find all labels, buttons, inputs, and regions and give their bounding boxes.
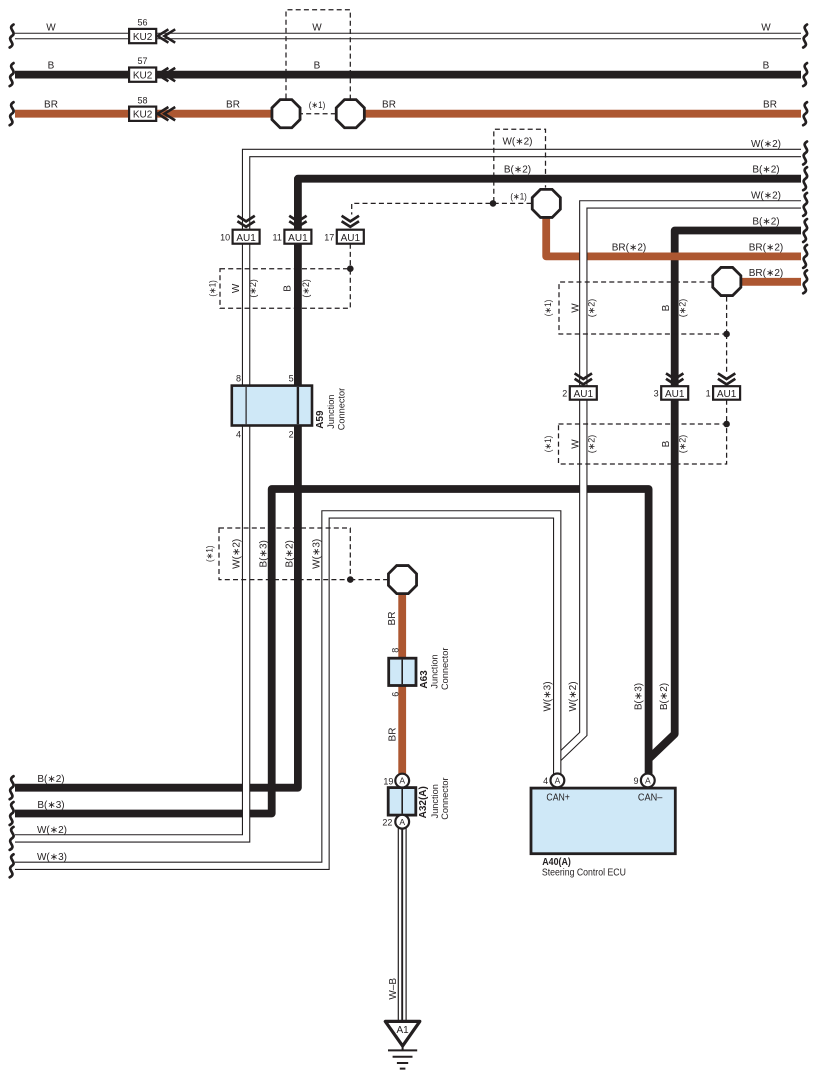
svg-text:B(∗3): B(∗3) xyxy=(37,800,64,811)
ground hatching xyxy=(388,1046,417,1069)
svg-text:A40(A): A40(A) xyxy=(542,857,571,868)
svg-text:(∗1): (∗1) xyxy=(543,436,553,453)
svg-text:Junction: Junction xyxy=(326,395,336,429)
svg-text:B(∗2): B(∗2) xyxy=(752,216,779,227)
svg-text:A: A xyxy=(399,776,405,786)
shield dashed link octagon E4 down to box S5 xyxy=(726,297,728,334)
shield terminal octagon E1 xyxy=(272,100,300,128)
wire BR(*2) from octagon E4 to right edge xyxy=(736,278,801,286)
svg-text:2: 2 xyxy=(562,388,567,398)
svg-text:BR: BR xyxy=(763,100,777,111)
connector AU1 pin 17 xyxy=(337,230,364,244)
wire W(*2) right branch to ECU CAN+ pin 4 xyxy=(557,204,801,759)
svg-text:BR: BR xyxy=(387,612,398,626)
node shield junction at S5 bottom right xyxy=(723,331,730,338)
junction connector A63 xyxy=(389,658,416,685)
svg-text:W: W xyxy=(46,22,56,33)
svg-text:W(∗2): W(∗2) xyxy=(751,190,781,201)
svg-text:22: 22 xyxy=(382,817,392,827)
svg-text:17: 17 xyxy=(324,232,334,242)
svg-text:(∗2): (∗2) xyxy=(678,435,688,454)
shield outline S2 (box labelled W(*2)) xyxy=(494,129,546,202)
svg-text:W: W xyxy=(312,22,322,33)
svg-text:(∗2): (∗2) xyxy=(301,279,311,298)
svg-text:BR: BR xyxy=(44,100,58,111)
svg-text:56: 56 xyxy=(137,18,147,28)
svg-text:BR: BR xyxy=(382,100,396,111)
svg-text:B(∗2): B(∗2) xyxy=(285,540,296,567)
pin 22 terminal circle (A32) xyxy=(395,815,409,829)
svg-text:W(∗3): W(∗3) xyxy=(312,539,323,569)
svg-text:W(∗2): W(∗2) xyxy=(568,681,579,711)
svg-text:(∗1): (∗1) xyxy=(309,100,326,110)
node shield junction at S3 top right xyxy=(347,265,354,272)
shield dashed net from octagon E3 to connector AU1 pin 17 xyxy=(352,203,532,214)
connector AU1 pin 11 arrow xyxy=(289,216,306,227)
shield terminal octagon E2 xyxy=(336,100,364,128)
svg-text:1: 1 xyxy=(706,388,711,398)
wire B(*2) right branch to ECU CAN- pin 9 xyxy=(649,231,801,760)
shield terminal octagon E4 xyxy=(713,267,741,295)
svg-text:B(∗2): B(∗2) xyxy=(37,774,64,785)
svg-text:(∗2): (∗2) xyxy=(587,435,597,454)
svg-text:11: 11 xyxy=(273,232,282,242)
svg-text:6: 6 xyxy=(391,692,401,697)
connector AU1 pin 3 xyxy=(661,386,688,400)
svg-text:A32(A): A32(A) xyxy=(418,786,429,818)
wire W (main bus, top) xyxy=(15,33,801,40)
shield dashed link box S5 to connector AU1 pin 1 xyxy=(726,334,728,373)
connector AU1 pin 11 xyxy=(284,230,311,244)
connector AU1 pin 2 xyxy=(570,386,597,400)
svg-text:W(∗3): W(∗3) xyxy=(543,681,554,711)
svg-text:BR(∗2): BR(∗2) xyxy=(749,243,784,254)
svg-text:8: 8 xyxy=(236,373,241,383)
svg-text:AU1: AU1 xyxy=(574,389,594,400)
wire BR (main, left of octagon E1) xyxy=(15,110,282,118)
svg-text:W: W xyxy=(571,439,582,449)
svg-text:AU1: AU1 xyxy=(236,233,256,244)
svg-text:(∗1): (∗1) xyxy=(207,280,217,297)
svg-text:10: 10 xyxy=(220,232,230,242)
svg-text:B(∗3): B(∗3) xyxy=(259,540,270,567)
svg-text:B: B xyxy=(314,61,321,72)
connector AU1 pin 1 xyxy=(713,386,740,400)
svg-text:KU2: KU2 xyxy=(133,110,153,121)
svg-text:A1: A1 xyxy=(396,1025,409,1036)
svg-text:W(∗2): W(∗2) xyxy=(502,137,532,148)
svg-text:(∗2): (∗2) xyxy=(587,299,597,318)
svg-text:Connector: Connector xyxy=(440,777,450,819)
wire B(*2) from right edge through A59 to left edge xyxy=(15,179,801,788)
svg-text:B: B xyxy=(661,304,672,311)
shield outline S5 (right upper box W(*2)/B(*2)) xyxy=(559,282,727,334)
shield outline S6 (right lower box W(*2)/B(*2)) xyxy=(559,424,727,464)
wire break symbols, left edge xyxy=(10,25,14,48)
pin 9 terminal circle (A40) xyxy=(641,774,655,788)
svg-text:A: A xyxy=(555,776,561,786)
shield dashed link AU1 pin1 to box S6 xyxy=(726,400,728,424)
svg-text:57: 57 xyxy=(137,56,147,66)
junction connector A32(A) xyxy=(388,788,416,816)
svg-text:W(∗2): W(∗2) xyxy=(37,825,67,836)
svg-text:B(∗2): B(∗2) xyxy=(752,165,779,176)
shield outline S3 (left box around W(*2)/B(*2)) xyxy=(220,269,350,309)
wire break symbols, right edge xyxy=(803,25,807,48)
svg-text:B: B xyxy=(283,285,294,292)
svg-text:AU1: AU1 xyxy=(341,233,361,244)
svg-text:A: A xyxy=(399,817,405,827)
svg-text:(∗1): (∗1) xyxy=(510,192,527,202)
pin 4 terminal circle (A40) xyxy=(551,774,565,788)
ground A1 triangle xyxy=(385,1021,420,1046)
ECU A40(A) Steering Control ECU box xyxy=(531,788,675,854)
svg-text:5: 5 xyxy=(289,373,294,383)
svg-text:CAN+: CAN+ xyxy=(546,793,570,804)
svg-text:AU1: AU1 xyxy=(717,389,737,400)
svg-text:3: 3 xyxy=(654,388,659,398)
svg-text:B: B xyxy=(661,440,672,447)
connector AU1 pin 2 arrow xyxy=(575,373,592,384)
connector AU1 pin 17 arrow xyxy=(342,216,359,227)
wire W(*3) from left edge up and across to ECU CAN+ pin 4 xyxy=(15,514,557,865)
shield outline S4 (left lower box W(*2)/B(*3)/B(*2)/W(*3)) xyxy=(219,528,350,580)
svg-text:Connector: Connector xyxy=(337,388,347,430)
svg-text:2: 2 xyxy=(289,430,294,440)
svg-text:W: W xyxy=(231,283,242,293)
node shield junction at S6 top right xyxy=(723,421,730,428)
pin 19 terminal circle (A32) xyxy=(395,774,409,788)
svg-text:W: W xyxy=(571,303,582,313)
svg-text:8: 8 xyxy=(391,648,401,653)
wire W-B from A32(A) pin 22 to ground A1 xyxy=(398,826,407,1021)
wire BR (main, right of octagon E2) xyxy=(354,110,801,118)
shield outline S1 (top, around W/B/BR octagon pair) xyxy=(286,10,350,99)
svg-text:19: 19 xyxy=(383,776,393,786)
wire B (main bus, top) xyxy=(15,71,801,79)
svg-text:B: B xyxy=(763,61,770,72)
svg-text:A: A xyxy=(645,776,651,786)
shield dashed link box S4 to octagon E5 xyxy=(350,579,387,581)
svg-text:(∗2): (∗2) xyxy=(248,279,258,298)
connector AU1 pin 10 arrow xyxy=(237,216,254,227)
svg-text:A63: A63 xyxy=(419,670,430,689)
svg-text:4: 4 xyxy=(543,776,548,786)
svg-text:Steering Control ECU: Steering Control ECU xyxy=(542,868,626,879)
svg-text:BR(∗2): BR(∗2) xyxy=(749,268,784,279)
connector AU1 pin 3 arrow xyxy=(666,373,683,384)
svg-text:W: W xyxy=(761,22,771,33)
svg-text:(∗2): (∗2) xyxy=(678,299,688,318)
svg-text:A59: A59 xyxy=(315,410,326,429)
svg-text:(∗1): (∗1) xyxy=(205,546,215,563)
node shield junction at (493,203) xyxy=(490,200,497,207)
svg-text:BR(∗2): BR(∗2) xyxy=(612,243,647,254)
wire BR from octagon E5 through A63 to A32(A) pin 19 xyxy=(398,590,406,776)
svg-text:AU1: AU1 xyxy=(665,389,685,400)
svg-text:58: 58 xyxy=(137,95,147,105)
svg-text:KU2: KU2 xyxy=(133,32,153,43)
svg-text:(∗1): (∗1) xyxy=(543,300,553,317)
shield dashed link between octagon E1 and octagon E2 xyxy=(298,113,338,115)
svg-text:W(∗2): W(∗2) xyxy=(751,139,781,150)
connector KU2 pin 57 (B wire) xyxy=(129,68,156,82)
wire B(*3) from left edge up and across to ECU CAN- pin 9 xyxy=(15,489,649,814)
shield dashed link AU1 pin17 to box S3 xyxy=(349,244,351,269)
svg-text:4: 4 xyxy=(236,430,241,440)
svg-text:9: 9 xyxy=(633,776,638,786)
svg-text:KU2: KU2 xyxy=(133,70,153,81)
svg-text:BR: BR xyxy=(388,728,399,742)
node shield junction at S4 bottom right xyxy=(347,576,354,583)
svg-text:W–B: W–B xyxy=(388,978,399,1000)
shield terminal octagon E5 xyxy=(388,566,416,594)
connector KU2 pin 56 (W wire) xyxy=(129,29,156,43)
connector KU2 pin 58 (BR wire) xyxy=(129,107,156,121)
svg-text:Junction: Junction xyxy=(430,784,440,818)
svg-text:Junction: Junction xyxy=(430,654,440,688)
svg-text:B(∗2): B(∗2) xyxy=(659,683,670,710)
wire W(*2) from right edge through A59 to left edge xyxy=(15,153,801,838)
shield terminal octagon E3 xyxy=(532,189,560,217)
junction connector A59 xyxy=(232,386,312,426)
svg-text:W(∗2): W(∗2) xyxy=(232,539,243,569)
connector AU1 pin 1 arrow xyxy=(718,373,735,384)
svg-text:W(∗3): W(∗3) xyxy=(37,852,67,863)
svg-text:BR: BR xyxy=(226,100,240,111)
svg-text:B(∗2): B(∗2) xyxy=(504,165,531,176)
svg-text:B(∗3): B(∗3) xyxy=(634,683,645,710)
connector AU1 pin 10 xyxy=(233,230,260,244)
wire BR(*2) from octagon E3 to right edge xyxy=(546,212,801,256)
svg-text:CAN–: CAN– xyxy=(638,793,663,804)
svg-text:AU1: AU1 xyxy=(288,233,308,244)
svg-text:Connector: Connector xyxy=(440,648,450,690)
svg-text:B: B xyxy=(48,61,55,72)
